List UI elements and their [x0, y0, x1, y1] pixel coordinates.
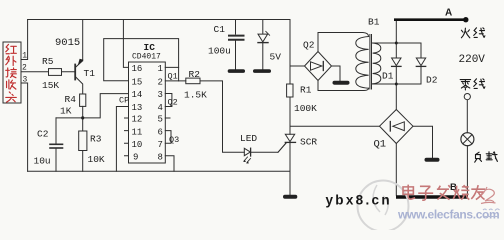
svg-text:8: 8 — [158, 153, 163, 163]
svg-text:10u: 10u — [34, 156, 51, 167]
svg-text:D2: D2 — [426, 75, 438, 86]
svg-text:R3: R3 — [90, 134, 102, 145]
svg-text:5: 5 — [158, 115, 163, 125]
svg-text:7: 7 — [158, 140, 163, 150]
svg-text:15: 15 — [132, 77, 143, 87]
svg-text:1.5K: 1.5K — [184, 90, 207, 101]
svg-text:ybx8.cn: ybx8.cn — [326, 193, 392, 208]
svg-text:13: 13 — [132, 103, 143, 113]
svg-text:2: 2 — [158, 77, 163, 87]
svg-text:2: 2 — [22, 64, 27, 73]
svg-text:C2: C2 — [37, 129, 49, 140]
svg-text:SCR: SCR — [300, 137, 317, 148]
svg-text:R4: R4 — [65, 94, 77, 105]
svg-text:220V: 220V — [459, 54, 486, 66]
svg-text:9015: 9015 — [55, 37, 80, 49]
svg-text:A: A — [445, 8, 452, 19]
svg-text:6: 6 — [158, 127, 163, 137]
svg-text:100u: 100u — [208, 46, 231, 57]
svg-text:12: 12 — [132, 115, 143, 125]
svg-text:Q2: Q2 — [303, 40, 315, 51]
svg-text:10K: 10K — [88, 154, 105, 165]
svg-text:LED: LED — [240, 133, 257, 144]
svg-text:R5: R5 — [42, 56, 54, 67]
svg-text:R2: R2 — [189, 69, 201, 80]
svg-text:10: 10 — [132, 140, 143, 150]
svg-text:100K: 100K — [294, 103, 317, 114]
svg-text:9: 9 — [133, 153, 138, 163]
svg-text:5V: 5V — [270, 52, 282, 63]
svg-text:1K: 1K — [60, 106, 72, 117]
svg-text:14: 14 — [132, 90, 143, 100]
svg-text:CD4017: CD4017 — [132, 53, 161, 62]
svg-text:11: 11 — [132, 127, 143, 137]
svg-text:3: 3 — [158, 90, 163, 100]
svg-text:4: 4 — [158, 103, 163, 113]
svg-text:CP: CP — [119, 96, 129, 106]
svg-text:3: 3 — [23, 76, 28, 85]
svg-text:1: 1 — [22, 52, 27, 61]
svg-text:D1: D1 — [382, 71, 394, 82]
svg-text:16: 16 — [132, 64, 143, 74]
svg-text:C1: C1 — [214, 24, 226, 35]
svg-text:Q2: Q2 — [168, 98, 178, 108]
svg-text:B1: B1 — [368, 17, 380, 28]
svg-text:IC: IC — [144, 42, 156, 53]
svg-text:1: 1 — [158, 64, 163, 74]
svg-text:Q1: Q1 — [374, 139, 387, 151]
svg-text:Q1: Q1 — [168, 72, 178, 82]
svg-text:R1: R1 — [300, 85, 312, 96]
svg-text:15K: 15K — [42, 80, 59, 91]
svg-text:Q3: Q3 — [169, 135, 179, 145]
svg-text:T1: T1 — [84, 68, 96, 79]
